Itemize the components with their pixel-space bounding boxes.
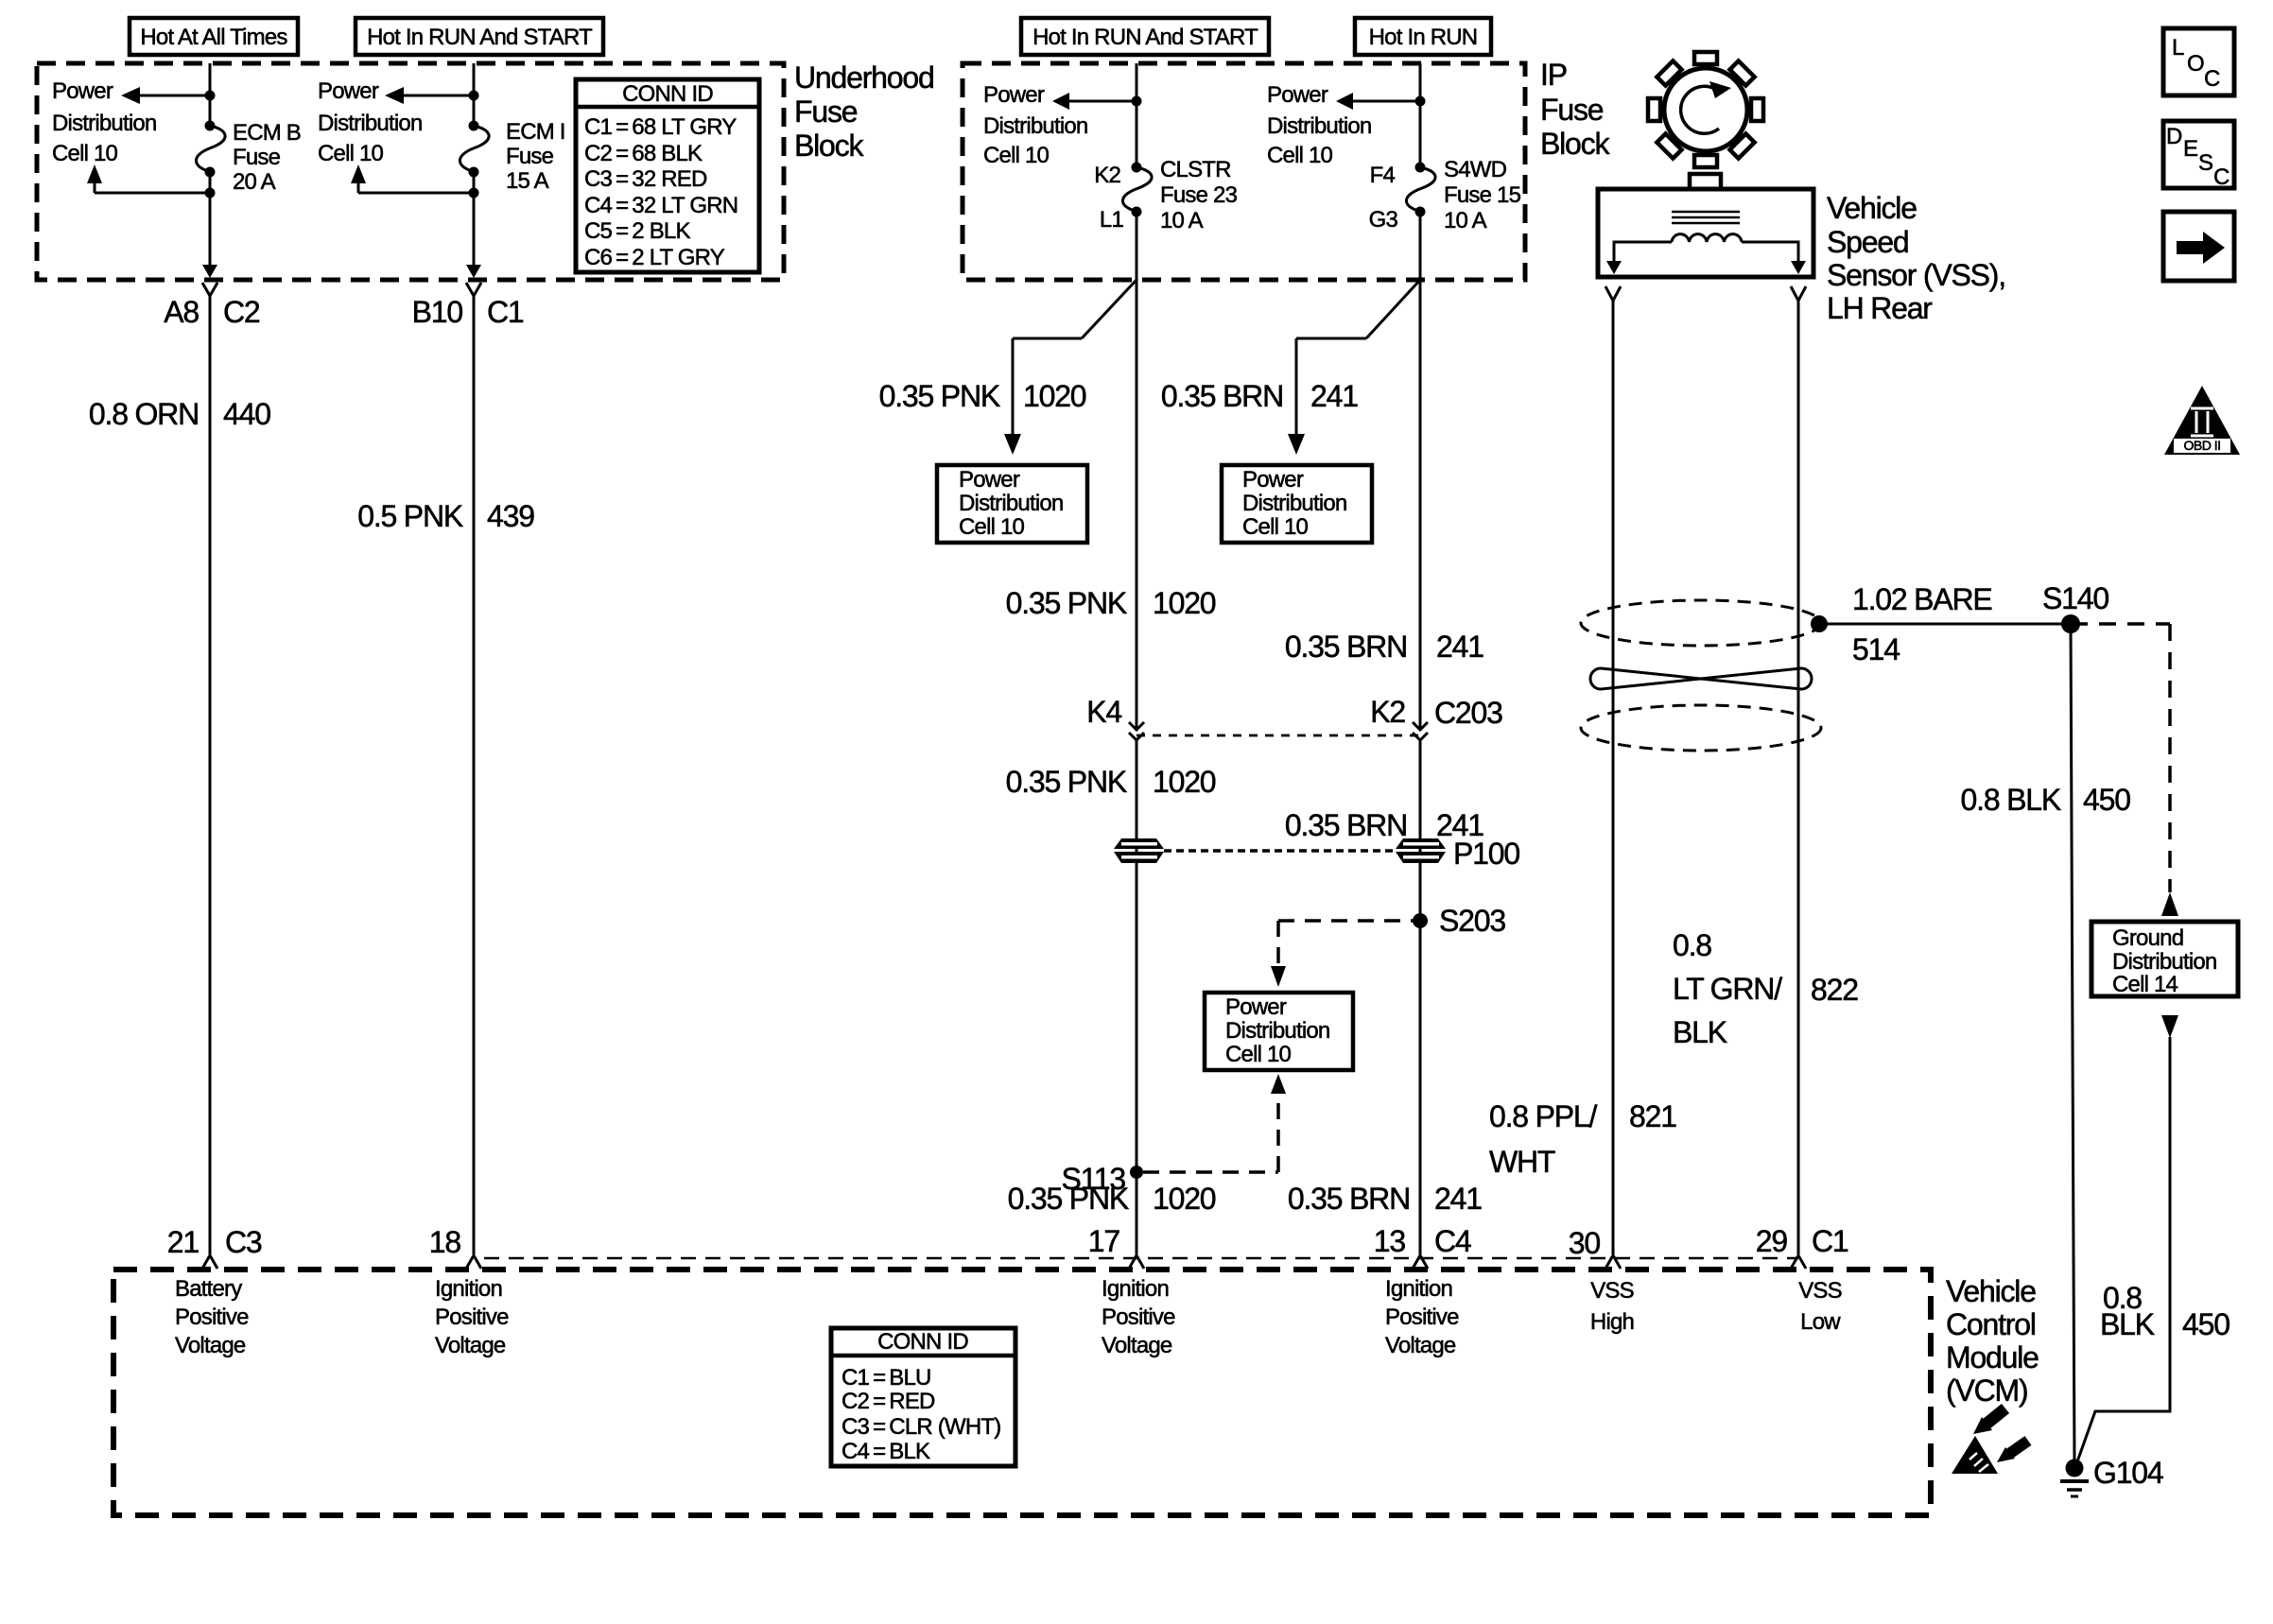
svg-text:Cell 10: Cell 10 xyxy=(52,141,118,166)
svg-text:0.8 ORN: 0.8 ORN xyxy=(89,397,199,431)
svg-text:30: 30 xyxy=(1569,1226,1601,1260)
svg-text:822: 822 xyxy=(1811,973,1858,1007)
svg-text:0.35 PNK: 0.35 PNK xyxy=(1006,765,1127,799)
svg-text:Low: Low xyxy=(1800,1309,1841,1335)
svg-text:VSS: VSS xyxy=(1798,1278,1842,1304)
svg-text:S140: S140 xyxy=(2042,581,2108,615)
svg-text:Distribution: Distribution xyxy=(959,491,1063,516)
svg-text:G104: G104 xyxy=(2093,1456,2163,1490)
svg-text:VSS: VSS xyxy=(1590,1278,1634,1304)
svg-text:Power: Power xyxy=(1267,82,1328,108)
svg-text:Hot In RUN And START: Hot In RUN And START xyxy=(367,25,593,50)
svg-text:(VCM): (VCM) xyxy=(1946,1373,2027,1408)
svg-text:Fuse: Fuse xyxy=(233,145,281,170)
svg-text:450: 450 xyxy=(2182,1307,2230,1341)
svg-text:CONN ID: CONN ID xyxy=(877,1329,968,1355)
svg-text:514: 514 xyxy=(1852,632,1900,666)
svg-text:821: 821 xyxy=(1629,1099,1676,1133)
svg-text:Positive: Positive xyxy=(1102,1304,1175,1330)
svg-text:Ignition: Ignition xyxy=(1102,1276,1169,1302)
svg-text:1020: 1020 xyxy=(1153,586,1216,620)
svg-text:Distribution: Distribution xyxy=(1267,113,1371,139)
svg-text:0.35 BRN: 0.35 BRN xyxy=(1161,379,1283,413)
svg-text:Distribution: Distribution xyxy=(983,113,1087,139)
svg-text:Distribution: Distribution xyxy=(1242,491,1346,516)
svg-text:1020: 1020 xyxy=(1023,379,1086,413)
svg-text:BLK: BLK xyxy=(2100,1307,2155,1341)
svg-text:L: L xyxy=(2172,35,2184,60)
svg-text:C1: C1 xyxy=(1812,1224,1848,1258)
svg-text:L1: L1 xyxy=(1100,207,1124,233)
svg-text:LH Rear: LH Rear xyxy=(1827,291,1933,325)
svg-text:Cell 10: Cell 10 xyxy=(1225,1042,1292,1067)
svg-text:IP: IP xyxy=(1540,58,1567,92)
svg-text:Power: Power xyxy=(959,467,1020,492)
svg-text:C1 = BLU: C1 = BLU xyxy=(842,1365,931,1391)
svg-text:C4 = BLK: C4 = BLK xyxy=(842,1439,930,1464)
svg-text:WHT: WHT xyxy=(1489,1145,1555,1179)
svg-text:13: 13 xyxy=(1374,1224,1406,1258)
svg-text:Block: Block xyxy=(794,129,864,163)
svg-text:Fuse 15: Fuse 15 xyxy=(1444,182,1521,208)
svg-text:Voltage: Voltage xyxy=(435,1333,506,1358)
svg-text:S203: S203 xyxy=(1439,904,1505,938)
svg-text:17: 17 xyxy=(1088,1224,1120,1258)
svg-text:Control: Control xyxy=(1946,1307,2036,1341)
svg-text:C3: C3 xyxy=(225,1225,262,1259)
svg-text:10 A: 10 A xyxy=(1160,208,1204,233)
svg-text:Battery: Battery xyxy=(175,1276,242,1302)
svg-text:18: 18 xyxy=(429,1225,461,1259)
svg-text:Positive: Positive xyxy=(435,1304,509,1330)
svg-text:Power: Power xyxy=(52,78,113,104)
svg-text:Fuse 23: Fuse 23 xyxy=(1160,182,1238,208)
svg-text:450: 450 xyxy=(2083,783,2130,817)
svg-text:Cell 10: Cell 10 xyxy=(1267,143,1333,168)
svg-text:C4: C4 xyxy=(1434,1224,1471,1258)
svg-text:Cell 10: Cell 10 xyxy=(1242,514,1309,540)
svg-text:C4 = 32 LT GRN: C4 = 32 LT GRN xyxy=(584,193,737,218)
svg-text:0.8: 0.8 xyxy=(1673,928,1711,962)
svg-text:Hot At All Times: Hot At All Times xyxy=(140,25,287,50)
svg-text:C2: C2 xyxy=(223,295,260,329)
svg-text:Positive: Positive xyxy=(175,1304,249,1330)
svg-text:BLK: BLK xyxy=(1673,1015,1727,1049)
svg-text:D: D xyxy=(2166,124,2182,149)
svg-text:Ignition: Ignition xyxy=(1385,1276,1452,1302)
svg-text:0.35 PNK: 0.35 PNK xyxy=(879,379,1000,413)
svg-text:Hot In RUN And START: Hot In RUN And START xyxy=(1032,25,1258,50)
svg-text:1020: 1020 xyxy=(1153,765,1216,799)
svg-text:S: S xyxy=(2198,150,2212,176)
svg-text:0.35 BRN: 0.35 BRN xyxy=(1285,808,1407,842)
svg-text:O: O xyxy=(2187,51,2204,77)
svg-text:Hot In RUN: Hot In RUN xyxy=(1369,25,1478,50)
svg-text:A8: A8 xyxy=(164,295,199,329)
svg-text:Distribution: Distribution xyxy=(1225,1018,1329,1044)
svg-text:C2 = 68 BLK: C2 = 68 BLK xyxy=(584,141,703,166)
svg-text:Power: Power xyxy=(1242,467,1304,492)
svg-text:Speed: Speed xyxy=(1827,225,1909,259)
svg-text:C203: C203 xyxy=(1434,696,1502,730)
svg-text:Ground: Ground xyxy=(2112,925,2183,951)
svg-text:Power: Power xyxy=(1225,994,1287,1020)
svg-text:Underhood: Underhood xyxy=(794,60,934,95)
svg-text:15 A: 15 A xyxy=(506,168,549,194)
svg-text:B10: B10 xyxy=(412,295,463,329)
svg-text:Fuse: Fuse xyxy=(794,95,858,129)
svg-text:Distribution: Distribution xyxy=(318,111,422,136)
svg-text:Block: Block xyxy=(1540,127,1610,161)
svg-text:C: C xyxy=(2213,164,2230,190)
svg-text:C: C xyxy=(2204,66,2220,92)
svg-text:S4WD: S4WD xyxy=(1444,157,1507,182)
svg-text:OBD II: OBD II xyxy=(2183,438,2220,453)
svg-text:Voltage: Voltage xyxy=(175,1333,246,1358)
svg-text:Ignition: Ignition xyxy=(435,1276,502,1302)
svg-text:Sensor (VSS),: Sensor (VSS), xyxy=(1827,258,2005,292)
svg-text:0.8 PPL/: 0.8 PPL/ xyxy=(1489,1099,1597,1133)
svg-text:1020: 1020 xyxy=(1153,1182,1216,1216)
svg-text:K4: K4 xyxy=(1086,695,1121,729)
svg-text:CLSTR: CLSTR xyxy=(1160,157,1231,182)
svg-text:Positive: Positive xyxy=(1385,1304,1459,1330)
svg-text:High: High xyxy=(1590,1309,1634,1335)
svg-text:Cell 10: Cell 10 xyxy=(318,141,384,166)
svg-text:E: E xyxy=(2183,136,2197,162)
svg-text:Power: Power xyxy=(318,78,379,104)
svg-text:Cell 10: Cell 10 xyxy=(983,143,1050,168)
svg-text:Cell 10: Cell 10 xyxy=(959,514,1025,540)
svg-text:Fuse: Fuse xyxy=(1540,93,1604,127)
svg-text:Distribution: Distribution xyxy=(52,111,156,136)
svg-text:C1 = 68 LT GRY: C1 = 68 LT GRY xyxy=(584,114,737,140)
svg-text:0.8 BLK: 0.8 BLK xyxy=(1961,783,2061,817)
svg-text:241: 241 xyxy=(1436,630,1484,664)
svg-text:1.02 BARE: 1.02 BARE xyxy=(1852,582,1992,616)
svg-text:Vehicle: Vehicle xyxy=(1946,1274,2036,1308)
svg-text:0.35 PNK: 0.35 PNK xyxy=(1006,586,1127,620)
svg-text:Cell 14: Cell 14 xyxy=(2112,972,2178,997)
svg-text:C1: C1 xyxy=(487,295,524,329)
svg-text:G3: G3 xyxy=(1369,207,1398,233)
svg-text:0.35 BRN: 0.35 BRN xyxy=(1288,1182,1410,1216)
svg-text:Fuse: Fuse xyxy=(506,144,554,169)
svg-text:10 A: 10 A xyxy=(1444,208,1487,233)
svg-text:21: 21 xyxy=(167,1225,200,1259)
svg-text:Module: Module xyxy=(1946,1340,2039,1374)
svg-text:CONN ID: CONN ID xyxy=(622,81,713,107)
svg-text:C3 = 32 RED: C3 = 32 RED xyxy=(584,166,707,192)
svg-text:0.35 BRN: 0.35 BRN xyxy=(1285,630,1407,664)
svg-text:K2: K2 xyxy=(1370,695,1405,729)
svg-text:241: 241 xyxy=(1434,1182,1482,1216)
svg-text:P100: P100 xyxy=(1453,837,1519,871)
svg-text:C6 = 2 LT GRY: C6 = 2 LT GRY xyxy=(584,245,725,270)
svg-text:C2 = RED: C2 = RED xyxy=(842,1389,935,1414)
svg-text:F4: F4 xyxy=(1370,163,1396,188)
svg-text:440: 440 xyxy=(223,397,270,431)
svg-text:Power: Power xyxy=(983,82,1045,108)
svg-text:Voltage: Voltage xyxy=(1102,1333,1172,1358)
svg-text:20 A: 20 A xyxy=(233,169,276,195)
svg-text:C3 = CLR (WHT): C3 = CLR (WHT) xyxy=(842,1414,1000,1440)
svg-text:ECM I: ECM I xyxy=(506,119,565,145)
svg-text:Vehicle: Vehicle xyxy=(1827,191,1917,225)
svg-text:ECM B: ECM B xyxy=(233,120,301,146)
svg-text:439: 439 xyxy=(487,499,534,533)
svg-text:0.35 PNK: 0.35 PNK xyxy=(1008,1182,1129,1216)
svg-text:Voltage: Voltage xyxy=(1385,1333,1456,1358)
svg-text:241: 241 xyxy=(1310,379,1358,413)
svg-text:0.5 PNK: 0.5 PNK xyxy=(357,499,463,533)
svg-text:Distribution: Distribution xyxy=(2112,949,2216,975)
svg-text:C5 = 2 BLK: C5 = 2 BLK xyxy=(584,218,690,244)
svg-text:29: 29 xyxy=(1756,1224,1788,1258)
svg-text:K2: K2 xyxy=(1094,163,1120,188)
svg-text:LT GRN/: LT GRN/ xyxy=(1673,972,1782,1006)
